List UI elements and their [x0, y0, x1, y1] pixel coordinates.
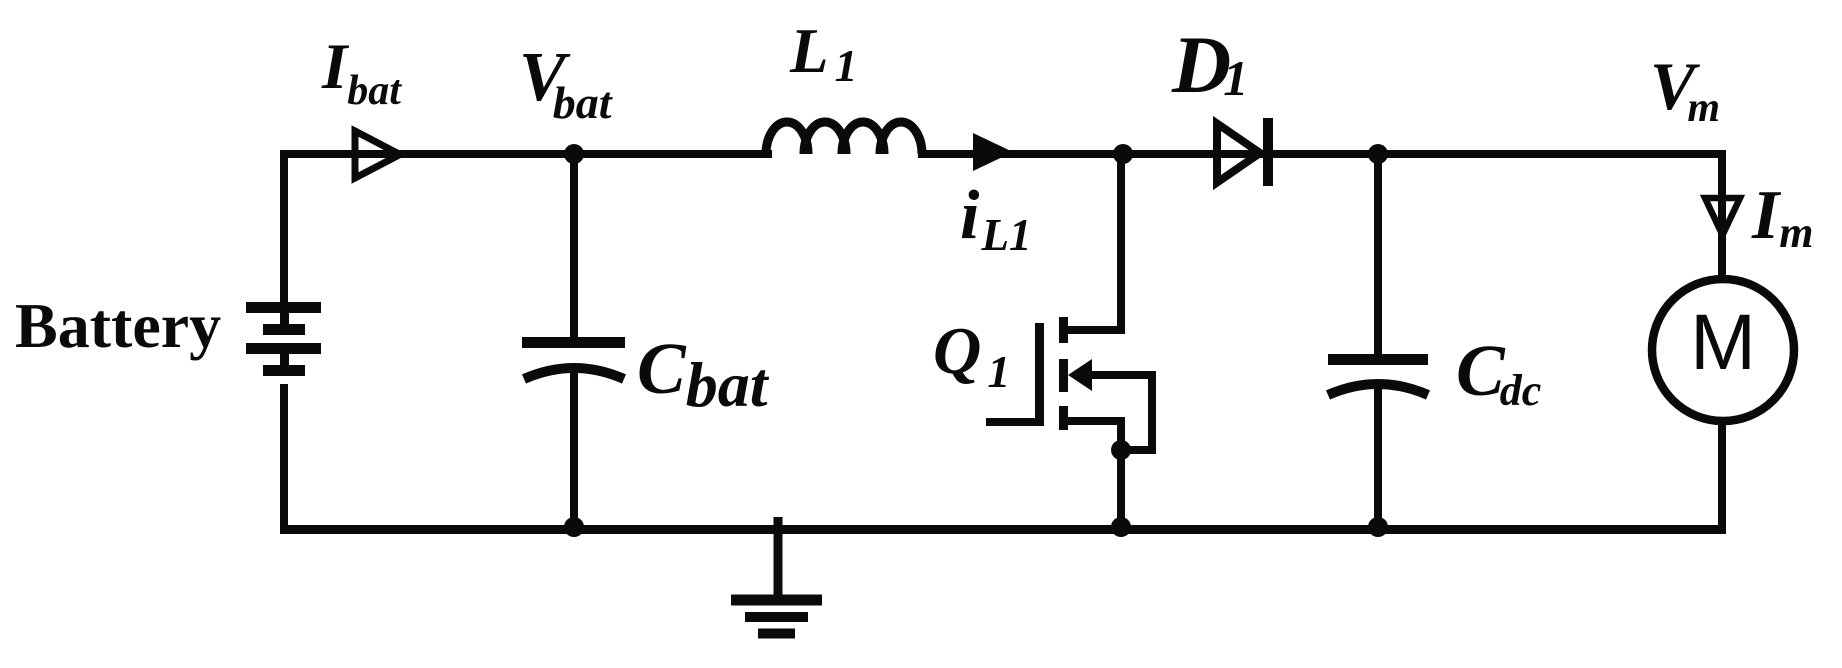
battery cell stub 2	[280, 349, 289, 369]
arrow Im (open, down)	[1705, 198, 1740, 235]
Q1 gate lead	[986, 418, 1044, 426]
wire overlay through Im arrow	[1718, 154, 1726, 282]
wire left rail bottom	[280, 384, 288, 533]
diode D1	[1217, 118, 1273, 186]
battery long plate 2	[246, 343, 321, 354]
node Cbat on bus dot	[564, 517, 584, 537]
node Q1 source on bus dot	[1111, 517, 1131, 537]
node Cdc on bus dot	[1368, 517, 1388, 537]
wire bottom bus	[280, 525, 1726, 534]
Cbat curved plate	[524, 368, 624, 379]
ground	[731, 517, 822, 639]
Q1 source stub	[1066, 417, 1125, 425]
wire Q1 source to ground bus	[1117, 421, 1125, 529]
battery short plate 1	[263, 324, 305, 335]
wire Cdc rail top	[1374, 154, 1382, 357]
node Vbat dot	[564, 144, 584, 164]
Q1 channel middle segment	[1059, 359, 1068, 392]
Q1 gate bar	[1035, 323, 1044, 424]
arrow iL1 (solid)	[973, 133, 1013, 171]
ground bar 1	[731, 595, 822, 606]
wire Q1 drain	[1066, 154, 1121, 330]
wire Vbat rail bottom	[570, 366, 578, 529]
ground stub	[774, 517, 783, 600]
wire top bus left segment	[284, 150, 772, 158]
node D1-Cdc dot	[1368, 144, 1388, 164]
Q1 channel bottom segment	[1059, 406, 1068, 430]
inductor L1	[766, 122, 808, 154]
svg-text:Battery: Battery	[15, 290, 221, 361]
node Q1 body-source dot	[1111, 440, 1131, 460]
capacitor Cdc	[1328, 354, 1428, 395]
D1 cathode bar	[1263, 118, 1273, 186]
ground bar 3	[758, 629, 795, 639]
wire Vbat rail top	[570, 154, 578, 340]
Q1 channel top segment	[1059, 317, 1068, 343]
Q1 body arrow	[1068, 359, 1092, 391]
wire Cdc rail bottom	[1374, 382, 1382, 529]
wire right rail bottom	[1718, 419, 1726, 533]
node L1-D1 dot	[1113, 144, 1133, 164]
wire right rail top	[1718, 150, 1726, 282]
arrow Ibat (open)	[355, 131, 400, 178]
D1 triangle	[1217, 124, 1260, 183]
svg-text:M: M	[1690, 297, 1756, 386]
Cdc curved plate	[1328, 384, 1428, 395]
Q1 body wire	[1090, 375, 1152, 450]
ground bar 2	[745, 612, 808, 622]
Cbat top plate	[522, 337, 625, 348]
battery long plate 1	[246, 302, 321, 313]
wire left rail top	[280, 150, 288, 303]
battery short plate 2	[263, 365, 305, 376]
wire top bus right segment	[918, 150, 1722, 158]
motor M circle	[1652, 279, 1794, 421]
Cdc top plate	[1328, 354, 1428, 365]
battery cell stub 1	[280, 308, 289, 328]
capacitor Cbat	[522, 337, 625, 379]
battery plates	[246, 302, 321, 376]
transistor Q1	[986, 317, 1152, 450]
